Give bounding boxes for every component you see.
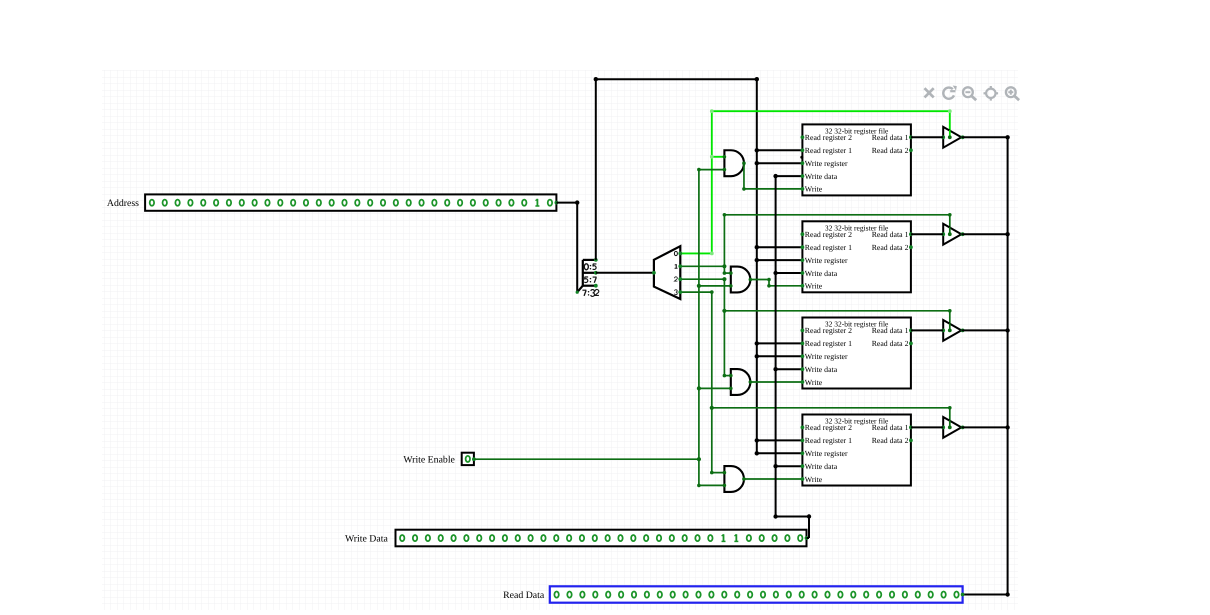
label Read Data: [503, 590, 545, 601]
svg-text:Write data: Write data: [805, 269, 838, 278]
register file RF3 (32 32-bit register file): [801, 318, 913, 389]
wire register-select bus (splitter 0:5 up, across top, down to register files): [594, 77, 759, 453]
wire write-data bus to register files: [773, 174, 811, 538]
input pin Address (32-bit, value 2): [145, 194, 558, 210]
svg-text:Read register 2: Read register 2: [805, 423, 852, 432]
wire address bus to splitter: [556, 200, 579, 292]
wire write-enable to AND gates: [474, 168, 731, 487]
and-gate A3: [729, 369, 752, 395]
splitter label 5:7: [584, 277, 596, 283]
wire register3 Read data 1 to buffer B3: [911, 329, 943, 331]
svg-text:Read data 2: Read data 2: [872, 339, 909, 348]
wire register1 Read data 1 to buffer B1: [911, 136, 943, 138]
svg-text:Read register 1: Read register 1: [805, 243, 852, 252]
buffer B4 (tri-state): [941, 417, 964, 438]
icon zoom out: [963, 87, 976, 100]
svg-text:Address: Address: [107, 198, 139, 209]
svg-text:Read register 2: Read register 2: [805, 133, 852, 142]
svg-text:Read Data: Read Data: [503, 590, 545, 601]
svg-text:Write register: Write register: [805, 449, 848, 458]
input pin Write Data (32-bit, value 96): [396, 530, 809, 547]
svg-text:Write Data: Write Data: [345, 534, 389, 545]
buffer B1 (tri-state): [941, 127, 964, 148]
svg-text:Read data 2: Read data 2: [872, 146, 909, 155]
wire register4 Read data 1 to buffer B4: [911, 426, 943, 428]
svg-text:Read register 2: Read register 2: [805, 326, 852, 335]
and-gate A4: [723, 466, 746, 492]
input pin Write Enable (1-bit, value 0): [462, 453, 476, 465]
svg-text:Read register 2: Read register 2: [805, 230, 852, 239]
splitter label 7:32: [582, 290, 598, 297]
svg-text:Read data 1: Read data 1: [872, 230, 909, 239]
label Write Data: [345, 534, 389, 545]
buffer B2 (tri-state): [941, 224, 964, 245]
and-gate A1: [723, 150, 746, 176]
svg-text:Write Enable: Write Enable: [403, 454, 455, 465]
icon zoom in: [1006, 87, 1019, 100]
svg-text:Write register: Write register: [805, 352, 848, 361]
svg-text:Write: Write: [805, 378, 823, 387]
svg-text:Write: Write: [805, 282, 823, 291]
register file RF2 (32 32-bit register file): [801, 221, 913, 292]
svg-text:Write data: Write data: [805, 462, 838, 471]
svg-text:Read data 2: Read data 2: [872, 436, 909, 445]
register file RF1 (32 32-bit register file): [800, 124, 913, 195]
wire AND1 output to register1 Write: [742, 163, 802, 191]
wire register-select taps to Read register 1 / Write register pins: [755, 148, 803, 455]
svg-text:Read data 1: Read data 1: [872, 326, 909, 335]
buffer B3 (tri-state): [941, 320, 964, 341]
icon reset view (target): [984, 86, 999, 101]
wire register2 Read data 1 to buffer B2: [911, 233, 943, 235]
wire decoder out1 to buffer2 enable and AND2 input: [678, 213, 951, 275]
wire AND3 output to register3 Write: [750, 381, 802, 383]
decoder U1 (2-to-4): [652, 246, 680, 299]
svg-text:Write: Write: [805, 475, 823, 484]
wire AND4 output to register4 Write: [744, 478, 802, 480]
label Address: [107, 198, 139, 209]
svg-text:Write data: Write data: [805, 365, 838, 374]
svg-text:Read data 1: Read data 1: [872, 133, 909, 142]
svg-text:Write register: Write register: [805, 256, 848, 265]
wire splitter 5:7 to decoder select: [596, 272, 654, 274]
icon redo (circular arrow): [943, 86, 957, 99]
svg-text:Read register 1: Read register 1: [805, 146, 852, 155]
wire read-data bus from buffers to Read Data pin: [961, 135, 1009, 597]
and-gate A2: [729, 267, 752, 293]
svg-text:Write register: Write register: [805, 159, 848, 168]
register file RF4 (32 32-bit register file): [801, 415, 913, 486]
svg-text:Write: Write: [805, 185, 823, 194]
label Write Enable: [403, 454, 455, 465]
wire AND2 output to register2 Write: [750, 278, 802, 288]
icon close (x): [925, 88, 934, 97]
wire decoder out3 to buffer4 enable and AND4 input: [678, 290, 951, 474]
splitter 32-bit (0:5 / 5:7 / 7:32): [576, 258, 598, 294]
wire decoder out0 (high) to buffer1 enable and AND1 input: [678, 109, 951, 255]
svg-text:Write data: Write data: [805, 172, 838, 181]
svg-text:Read register 1: Read register 1: [805, 436, 852, 445]
splitter label 0:5: [584, 264, 596, 270]
svg-text:Read data 2: Read data 2: [872, 243, 909, 252]
wire decoder out2 to buffer3 enable and AND3 input: [678, 277, 951, 377]
svg-text:Read data 1: Read data 1: [872, 423, 909, 432]
output pin Read Data (32-bit, value 0): [550, 586, 965, 602]
svg-text:Read register 1: Read register 1: [805, 339, 852, 348]
